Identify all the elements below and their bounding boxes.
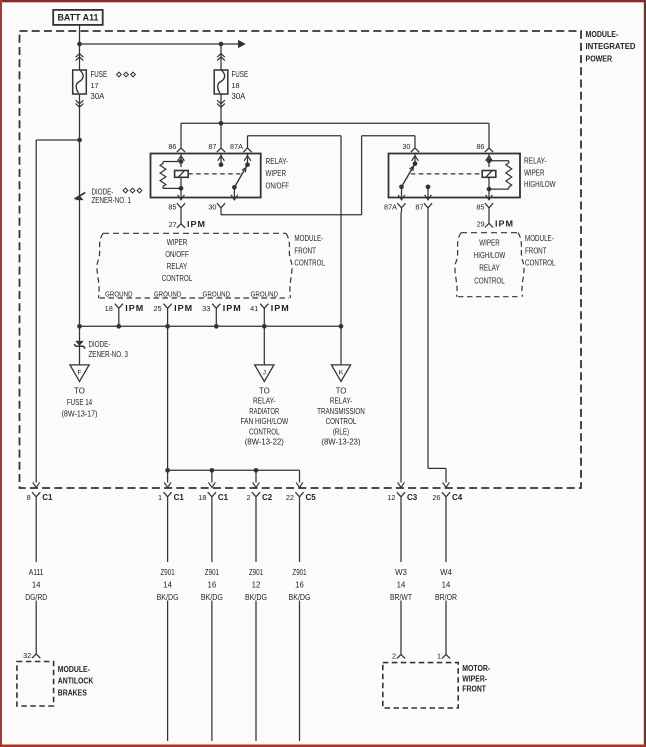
- svg-text:FRONT: FRONT: [525, 246, 547, 255]
- svg-text:2: 2: [246, 493, 250, 502]
- svg-text:WIPER: WIPER: [167, 238, 188, 247]
- svg-text:30: 30: [208, 203, 216, 212]
- svg-text:A111: A111: [29, 568, 44, 577]
- svg-text:RELAY-: RELAY-: [253, 397, 276, 406]
- svg-text:MODULE-: MODULE-: [58, 665, 90, 674]
- svg-text:(8W-13-23): (8W-13-23): [321, 438, 361, 447]
- svg-text:2: 2: [392, 652, 396, 661]
- svg-text:GROUND: GROUND: [251, 290, 279, 299]
- svg-text:CONTROL: CONTROL: [326, 417, 357, 426]
- svg-text:Z901: Z901: [292, 568, 306, 577]
- svg-text:12: 12: [252, 581, 261, 590]
- svg-text:87A: 87A: [230, 142, 243, 151]
- svg-text:87: 87: [415, 203, 423, 212]
- svg-text:RADIATOR: RADIATOR: [249, 407, 279, 416]
- svg-text:12: 12: [387, 493, 395, 502]
- svg-text:MODULE-: MODULE-: [525, 234, 554, 243]
- svg-text:25: 25: [153, 304, 161, 313]
- svg-text:CONTROL: CONTROL: [474, 276, 505, 285]
- svg-text:IPM: IPM: [271, 304, 290, 313]
- svg-text:MODULE-: MODULE-: [294, 234, 323, 243]
- svg-text:MODULE-: MODULE-: [586, 30, 619, 39]
- svg-text:WIPER: WIPER: [479, 238, 500, 247]
- svg-text:27: 27: [169, 220, 177, 229]
- svg-text:16: 16: [208, 581, 217, 590]
- svg-text:87: 87: [208, 142, 216, 151]
- svg-text:RELAY: RELAY: [167, 262, 188, 271]
- svg-text:Z901: Z901: [161, 568, 175, 577]
- svg-text:BRAKES: BRAKES: [58, 689, 88, 698]
- svg-text:86: 86: [476, 142, 484, 151]
- svg-text:HIGH/LOW: HIGH/LOW: [524, 180, 556, 189]
- svg-text:41: 41: [250, 304, 258, 313]
- svg-text:FRONT: FRONT: [294, 246, 316, 255]
- svg-text:8: 8: [27, 493, 31, 502]
- svg-text:WIPER: WIPER: [266, 169, 287, 178]
- svg-text:GROUND: GROUND: [203, 290, 231, 299]
- svg-text:26: 26: [432, 493, 440, 502]
- svg-text:17: 17: [91, 81, 99, 90]
- svg-text:W4: W4: [440, 568, 452, 577]
- svg-text:RELAY-: RELAY-: [266, 157, 289, 166]
- svg-text:CONTROL: CONTROL: [294, 258, 325, 267]
- svg-text:CONTROL: CONTROL: [249, 427, 280, 436]
- svg-text:FUSE: FUSE: [91, 70, 108, 79]
- svg-text:14: 14: [397, 581, 406, 590]
- svg-text:C1: C1: [174, 493, 185, 502]
- svg-text:RELAY: RELAY: [479, 264, 500, 273]
- svg-text:TO: TO: [74, 386, 85, 395]
- svg-text:HIGH/LOW: HIGH/LOW: [474, 251, 506, 260]
- svg-text:16: 16: [295, 581, 304, 590]
- svg-text:FUSE 14: FUSE 14: [67, 398, 93, 407]
- svg-text:C1: C1: [218, 493, 229, 502]
- svg-text:C2: C2: [262, 493, 273, 502]
- svg-text:30: 30: [402, 142, 410, 151]
- svg-text:33: 33: [202, 304, 210, 313]
- svg-text:30A: 30A: [91, 92, 106, 101]
- svg-text:IPM: IPM: [495, 220, 514, 229]
- svg-text:14: 14: [442, 581, 451, 590]
- svg-text:GROUND: GROUND: [105, 290, 133, 299]
- svg-text:(RLE): (RLE): [333, 427, 350, 436]
- svg-text:ZENER-NO. 3: ZENER-NO. 3: [89, 350, 129, 359]
- svg-text:FRONT: FRONT: [462, 685, 486, 694]
- svg-text:J: J: [263, 369, 266, 376]
- svg-text:86: 86: [168, 142, 176, 151]
- svg-text:F: F: [77, 369, 81, 376]
- svg-text:ON/OFF: ON/OFF: [266, 182, 290, 191]
- svg-text:14: 14: [163, 581, 172, 590]
- svg-text:ZENER-NO. 1: ZENER-NO. 1: [92, 196, 132, 205]
- svg-text:C4: C4: [452, 493, 463, 502]
- svg-text:GROUND: GROUND: [154, 290, 182, 299]
- svg-text:POWER: POWER: [586, 54, 613, 63]
- svg-text:RELAY-: RELAY-: [330, 397, 353, 406]
- svg-text:IPM: IPM: [125, 304, 144, 313]
- svg-text:TO: TO: [259, 386, 270, 395]
- svg-text:18: 18: [105, 304, 113, 313]
- svg-text:TO: TO: [336, 386, 347, 395]
- svg-text:C3: C3: [407, 493, 418, 502]
- svg-text:ANTILOCK: ANTILOCK: [58, 677, 94, 686]
- svg-text:1: 1: [158, 493, 162, 502]
- svg-text:W3: W3: [395, 568, 407, 577]
- svg-text:MOTOR-: MOTOR-: [462, 664, 490, 673]
- svg-text:(8W-13-17): (8W-13-17): [62, 410, 98, 419]
- svg-text:FAN HIGH/LOW: FAN HIGH/LOW: [240, 417, 288, 426]
- svg-text:IPM: IPM: [174, 304, 193, 313]
- svg-text:FUSE: FUSE: [232, 70, 249, 79]
- svg-text:Z901: Z901: [205, 568, 219, 577]
- svg-text:85: 85: [168, 203, 176, 212]
- svg-text:C1: C1: [42, 493, 53, 502]
- svg-text:K: K: [339, 369, 344, 376]
- svg-text:18: 18: [232, 81, 240, 90]
- svg-text:1: 1: [437, 652, 441, 661]
- svg-text:BATT A11: BATT A11: [58, 13, 99, 23]
- svg-text:C5: C5: [306, 493, 317, 502]
- svg-text:30A: 30A: [232, 92, 247, 101]
- svg-text:32: 32: [23, 651, 31, 660]
- svg-text:29: 29: [477, 220, 485, 229]
- svg-text:(8W-13-22): (8W-13-22): [245, 438, 285, 447]
- svg-text:Z901: Z901: [249, 568, 263, 577]
- svg-text:INTEGRATED: INTEGRATED: [586, 42, 636, 51]
- svg-text:87A: 87A: [384, 203, 397, 212]
- svg-text:85: 85: [476, 203, 484, 212]
- svg-text:RELAY-: RELAY-: [524, 157, 547, 166]
- svg-text:WIPER: WIPER: [524, 169, 545, 178]
- svg-text:CONTROL: CONTROL: [525, 258, 556, 267]
- svg-text:CONTROL: CONTROL: [162, 274, 193, 283]
- svg-text:IPM: IPM: [223, 304, 242, 313]
- svg-text:ON/OFF: ON/OFF: [165, 250, 189, 259]
- svg-text:14: 14: [32, 581, 41, 590]
- svg-text:22: 22: [286, 493, 294, 502]
- svg-text:DIODE-: DIODE-: [89, 340, 111, 349]
- svg-text:IPM: IPM: [187, 220, 206, 229]
- svg-text:WIPER-: WIPER-: [462, 675, 487, 684]
- svg-text:18: 18: [198, 493, 206, 502]
- svg-text:TRANSMISSION: TRANSMISSION: [317, 407, 365, 416]
